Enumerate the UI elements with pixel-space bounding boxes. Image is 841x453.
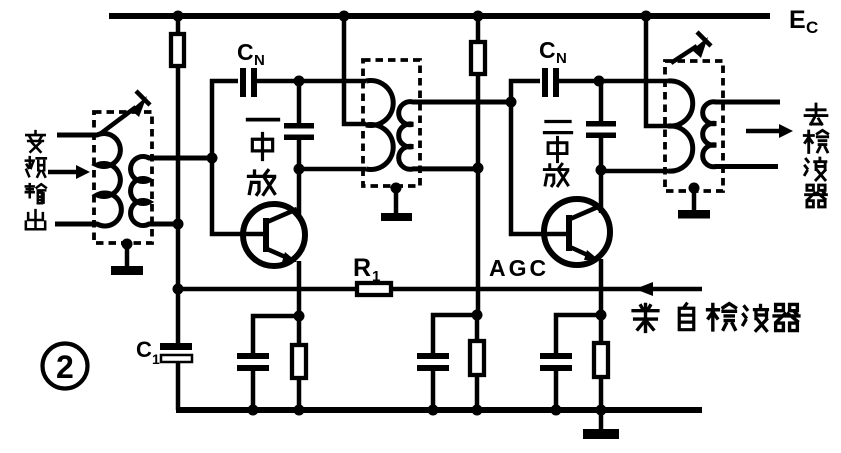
node T1 secondary bottom / bias	[173, 219, 184, 230]
svg-text:C: C	[136, 337, 152, 362]
transformer T3 shield box	[665, 61, 723, 191]
node AGC left end	[173, 284, 184, 295]
wire emitter node to bypass cap CE2	[556, 315, 601, 353]
node T1 base-side junction	[207, 153, 218, 164]
node rail-T2 tap feed junction	[339, 11, 350, 22]
resistor R1	[357, 283, 391, 295]
wire divider node to bypass cap CB2	[433, 315, 477, 353]
resistor RB2b	[470, 341, 484, 375]
input arrow (from converter)	[48, 165, 90, 179]
svg-text:AGC: AGC	[489, 255, 549, 281]
ground main (below Q2 emitter resistor)	[583, 410, 619, 439]
svg-text:C: C	[539, 37, 556, 63]
T1 secondary winding	[131, 157, 212, 226]
label Ec supply	[789, 6, 818, 37]
wire AGC line left segment	[178, 287, 357, 292]
wire base node up to CN2	[511, 81, 540, 102]
wire rail to T2 primary tap	[344, 16, 366, 124]
node T3 shield ground tap	[689, 183, 700, 194]
label CN1	[237, 39, 265, 69]
wire tank cap to collector node	[297, 140, 302, 169]
node CB2 ground	[428, 405, 439, 416]
node rail-T3 tap feed junction	[641, 11, 652, 22]
T1 tuning arrow	[100, 91, 150, 134]
wire rail to resistor Rb2	[476, 16, 481, 42]
wire bias node to AGC line	[176, 224, 181, 289]
label 来自检波器 (from detector)	[633, 304, 799, 332]
wire tank cap to collector node	[599, 138, 604, 170]
T3 primary winding	[668, 81, 693, 171]
resistor Rb2	[471, 42, 485, 74]
capacitor CN1 (neutralizing)	[240, 68, 257, 97]
node stage2 bias divider	[472, 310, 483, 321]
ground T1 shield	[111, 244, 143, 275]
svg-text:1: 1	[372, 268, 380, 285]
node collector tank top	[294, 76, 305, 87]
label C1	[136, 337, 160, 367]
wire AGC line right segment	[391, 287, 702, 292]
wire bottom ground rail	[176, 407, 702, 413]
node Q2 emitter junction	[596, 310, 607, 321]
ground T2 shield	[381, 186, 412, 221]
node CE2 ground	[551, 405, 562, 416]
label first IF amp 一中放	[248, 120, 279, 195]
transistor Q1 (first IF amp)	[243, 204, 305, 266]
wire RE2 to bottom rail	[599, 377, 604, 410]
node rail-Rb1 junction	[173, 11, 184, 22]
wire base node up to CN1	[212, 81, 238, 158]
wire RB2b to bottom rail	[475, 375, 480, 410]
label second IF amp 二中放	[544, 122, 571, 186]
wire rail to resistor Rb1	[176, 16, 181, 34]
label CN2	[539, 37, 567, 67]
transformer T1 shield box	[94, 112, 152, 243]
label R1	[353, 254, 380, 285]
T2 secondary winding	[399, 102, 511, 170]
wire CN1 to T2 primary top	[257, 79, 366, 84]
wire CE2 to bottom rail	[554, 371, 559, 410]
label 去检波器 (to detector)	[804, 104, 827, 207]
resistor Rb1	[171, 34, 184, 66]
wire divider node to resistor RB2b	[475, 315, 480, 341]
label figure number 2	[43, 344, 88, 389]
wire Q2 collector	[599, 170, 604, 213]
capacitor CE2 (emitter bypass)	[540, 353, 572, 371]
wire CN2 to T3 primary top	[559, 79, 668, 84]
wire Q1 collector	[297, 169, 302, 219]
node Q1 collector / T2 primary bottom	[294, 164, 305, 175]
wire Q2 emitter down	[599, 259, 604, 315]
node Q2 collector / T3 primary bottom	[596, 165, 607, 176]
svg-text:N: N	[556, 50, 567, 67]
svg-text:2: 2	[56, 349, 74, 385]
capacitor CN2 (neutralizing)	[542, 68, 559, 97]
node RB2b ground	[472, 405, 483, 416]
label 变频输出 (converter output)	[26, 131, 46, 229]
node RE2 ground	[596, 405, 607, 416]
wire emitter node to resistor RE2	[599, 315, 604, 343]
node stage2 tank top	[594, 76, 605, 87]
wire AGC node to capacitor C1	[176, 289, 181, 344]
wire CE1 to bottom rail	[251, 371, 256, 410]
wire RE1 to bottom rail	[297, 378, 302, 410]
T2 primary winding	[366, 81, 393, 170]
transistor Q2 (second IF amp)	[544, 199, 610, 265]
capacitor CE1 (emitter bypass)	[237, 353, 269, 371]
wire rail to T3 primary tap	[646, 16, 668, 126]
node T2 shield ground tap	[391, 183, 402, 194]
wire Q1 emitter down	[297, 261, 302, 316]
T3 tuning arrow	[671, 32, 711, 63]
AGC arrow from detector	[635, 282, 653, 296]
node T2 secondary bottom	[473, 163, 484, 174]
wire T2 secondary bottom to divider node	[476, 168, 481, 315]
wire collector node to T3 primary bottom	[601, 169, 668, 174]
wire top supply rail Ec	[109, 13, 770, 19]
svg-text:1: 1	[152, 351, 160, 367]
node RE1 ground	[294, 405, 305, 416]
wire emitter node to bypass cap CE1	[253, 316, 299, 353]
node Q1 emitter junction	[294, 311, 305, 322]
node rail-Rb2 junction	[473, 11, 484, 22]
node T1 shield ground tap	[122, 239, 133, 250]
capacitor T3 tank	[586, 121, 616, 138]
node T2 secondary top / Q2 base junction	[506, 97, 517, 108]
wire tank top to tank cap	[297, 81, 302, 123]
output arrow (to detector)	[746, 124, 793, 138]
svg-text:N: N	[254, 52, 265, 69]
svg-text:E: E	[789, 6, 806, 34]
T3 secondary winding	[703, 102, 780, 167]
wire base node down to Q2 base	[511, 102, 566, 234]
wire tank top to tank cap	[599, 81, 604, 121]
transformer T2 shield box	[363, 60, 420, 186]
wire Rb2 to T2 secondary bottom node	[476, 74, 481, 168]
resistor RE1	[292, 345, 306, 378]
capacitor T2 tank	[284, 123, 314, 140]
svg-text:C: C	[806, 18, 818, 37]
ground T3 shield	[678, 188, 710, 219]
wire CB2 to bottom rail	[431, 371, 436, 410]
capacitor C1 (electrolytic)	[160, 343, 192, 362]
wire C1 to bottom rail	[176, 362, 181, 410]
resistor RE2	[594, 343, 608, 377]
svg-text:C: C	[237, 39, 254, 65]
svg-text:R: R	[353, 254, 371, 282]
capacitor CB2 (base bypass)	[417, 353, 449, 371]
wire Rb1 to T1 secondary bottom node	[176, 66, 181, 224]
T1 primary winding	[55, 134, 121, 226]
wire base node down to Q1 base	[212, 158, 263, 234]
wire emitter node to resistor RE1	[297, 316, 302, 345]
node CE1 ground	[248, 405, 259, 416]
wire collector node to T2 primary bottom	[299, 167, 366, 172]
